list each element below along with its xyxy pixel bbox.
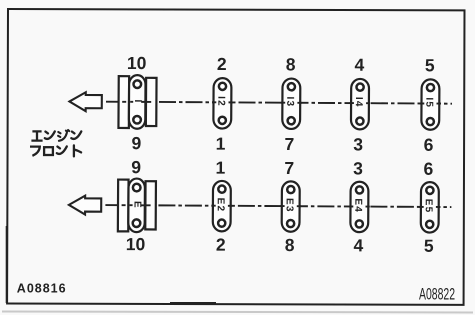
diagram content (slight scan tilt) (69, 53, 453, 256)
bearing cap I2 upper bolt hole (219, 83, 226, 90)
svg-text:10: 10 (127, 53, 147, 73)
svg-text:I5: I5 (423, 97, 434, 108)
bearing cap E4 centerline tick left (349, 205, 353, 207)
bearing cap I2 centerline tick left (212, 101, 216, 103)
bearing cap E5 lower bolt hole (426, 221, 433, 228)
svg-text:3: 3 (353, 158, 363, 178)
engine-front arrow, intake row (69, 92, 101, 111)
svg-text:E: E (131, 201, 142, 208)
bearing cap I4 centerline tick right (366, 102, 370, 104)
front bearing cap I1 (intake front): upper bolt hole (133, 80, 141, 88)
bearing cap I5 lower bolt hole (427, 118, 434, 125)
front bearing cap I1 (intake front): centerline tick right (141, 101, 151, 103)
bearing cap E2 lower bolt hole (218, 220, 225, 227)
svg-text:9: 9 (131, 157, 141, 177)
bearing cap I4 upper bolt hole (356, 84, 363, 91)
svg-text:I4: I4 (353, 97, 364, 108)
svg-text:1: 1 (216, 134, 226, 154)
front bearing cap E1 (exhaust front): upper bolt hole (133, 184, 141, 192)
front bearing cap E1 (exhaust front): lower bolt hole (133, 219, 141, 227)
bearing cap I2 centerline tick right (228, 101, 232, 103)
front bearing cap I1 (intake front): left flange plate (118, 76, 129, 128)
bearing cap I4 lower bolt hole (356, 118, 363, 125)
svg-text:6: 6 (423, 159, 433, 179)
bearing cap I3 upper bolt hole (288, 83, 295, 90)
bearing cap E2 centerline tick left (211, 205, 215, 207)
front bearing cap E1 (exhaust front): centerline tick right (141, 204, 151, 206)
label "エンジン" (engine) drawn as strokes (31, 130, 81, 141)
front bearing cap E1 (exhaust front): right flange plate (145, 181, 156, 229)
bearing cap I3 body (282, 78, 300, 129)
bearing cap E2 centerline tick right (228, 205, 232, 207)
bearing cap I3 lower bolt hole (288, 117, 295, 124)
bearing cap E4 lower bolt hole (356, 220, 363, 227)
svg-text:1: 1 (215, 158, 225, 178)
svg-text:10: 10 (126, 234, 146, 254)
front bearing cap I1 (intake front): right flange plate (146, 78, 157, 126)
svg-text:I3: I3 (284, 97, 295, 108)
svg-text:2: 2 (216, 235, 226, 255)
bearing cap E3 upper bolt hole (287, 186, 294, 193)
front bearing cap I1 (intake front): centerline tick left (122, 101, 126, 103)
front bearing cap I1 (intake front): lower bolt hole (133, 116, 141, 124)
svg-text:A08816: A08816 (17, 282, 67, 296)
front bearing cap E1 (exhaust front): cap body (128, 179, 145, 233)
svg-text:4: 4 (353, 235, 363, 255)
bearing cap I4 body (351, 79, 369, 130)
svg-text:6: 6 (424, 135, 434, 155)
svg-text:2: 2 (217, 54, 227, 74)
engine-front arrow, exhaust row (69, 196, 101, 215)
bearing cap E5 body (421, 182, 439, 233)
bearing cap E3 centerline tick left (280, 205, 284, 207)
svg-text:E4: E4 (352, 198, 363, 213)
svg-text:8: 8 (285, 235, 295, 255)
svg-text:7: 7 (284, 158, 294, 178)
front bearing cap E1 (exhaust front): left flange plate (118, 180, 129, 232)
svg-text:5: 5 (425, 55, 435, 75)
bearing cap I5 centerline tick left (420, 102, 424, 104)
darker mid segment of bottom border (scan artifact) (170, 302, 216, 305)
bearing cap E5 centerline tick right (436, 206, 440, 208)
bearing cap I5 upper bolt hole (427, 84, 434, 91)
svg-text:E3: E3 (284, 198, 295, 213)
svg-text:A08822: A08822 (419, 286, 455, 304)
svg-text:8: 8 (286, 54, 296, 74)
bearing cap I2 lower bolt hole (219, 117, 226, 124)
exhaust camshaft centerline (dash-dot) (105, 205, 451, 207)
bearing cap I3 centerline tick left (281, 102, 285, 104)
bearing cap E4 body (350, 182, 368, 233)
svg-text:E2: E2 (215, 198, 226, 213)
bearing cap I5 body (421, 79, 439, 130)
intake camshaft centerline (dash-dot) (106, 102, 452, 104)
bearing cap E2 body (213, 181, 231, 232)
svg-text:5: 5 (424, 236, 434, 256)
thicker lower-left border segment (scan artifact) (6, 226, 8, 303)
front bearing cap E1 (exhaust front): centerline tick left (122, 204, 126, 206)
svg-text:I2: I2 (215, 96, 226, 107)
svg-text:7: 7 (285, 134, 295, 154)
bearing cap E4 upper bolt hole (356, 186, 363, 193)
bearing cap E4 centerline tick right (366, 206, 370, 208)
bearing cap E2 upper bolt hole (218, 186, 225, 193)
bearing cap E3 body (282, 181, 300, 232)
bearing cap E5 centerline tick left (419, 206, 423, 208)
bearing cap I4 centerline tick left (350, 102, 354, 104)
svg-text:E5: E5 (423, 199, 434, 214)
front bearing cap E1 (exhaust front): centerline dot left (130, 204, 133, 206)
bearing cap E3 centerline tick right (297, 205, 301, 207)
faint scan line along bottom edge (2, 312, 473, 313)
front bearing cap I1 (intake front): cap body (129, 75, 146, 129)
svg-text:9: 9 (131, 133, 141, 153)
bearing cap E3 lower bolt hole (287, 220, 294, 227)
bearing cap I2 body (213, 78, 231, 129)
front bearing cap I1 (intake front): centerline dot left (130, 101, 133, 103)
bearing cap E5 upper bolt hole (426, 187, 433, 194)
label "フロント" (front) drawn as strokes (30, 145, 81, 156)
svg-text:4: 4 (354, 55, 364, 75)
svg-text:I: I (132, 100, 143, 103)
svg-text:3: 3 (353, 134, 363, 154)
bearing cap I5 centerline tick right (436, 103, 440, 105)
bearing cap I3 centerline tick right (297, 102, 301, 104)
